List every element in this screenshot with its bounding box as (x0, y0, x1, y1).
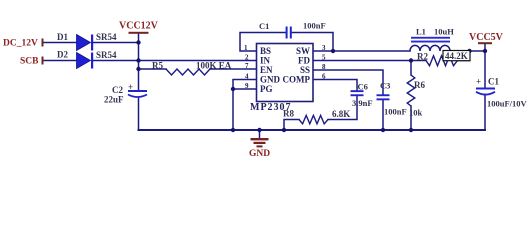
capacitor C2 input electrolytic (128, 90, 147, 92)
wire COMP line pin 6 to C6 (313, 80, 357, 91)
svg-text:VCC12V: VCC12V (119, 21, 159, 32)
svg-text:9: 9 (245, 82, 249, 90)
wire inductor to output node (450, 50, 485, 52)
wire BS bootstrap stub (240, 33, 286, 52)
op-amp U1 MP2307 IC box (257, 44, 314, 102)
wire R6 leads (410, 61, 412, 131)
svg-text:R2: R2 (417, 52, 428, 62)
wire C6 bottom to R8 (328, 96, 357, 120)
wire R5 to pin 7 EN (210, 68, 257, 70)
wire VCC12V vertical rail (138, 34, 140, 131)
wire D1 cathode to 12V rail (93, 42, 139, 44)
wire SW to inductor (313, 50, 410, 52)
wire DC_12V to D1 anode (43, 42, 78, 44)
svg-text:SR54: SR54 (96, 32, 117, 42)
inductor L1 core bars (411, 37, 450, 39)
svg-text:100nF: 100nF (303, 21, 326, 31)
svg-text:7: 7 (245, 62, 249, 70)
resistor R5 zigzag (166, 69, 210, 75)
inductor L1 coil (410, 45, 450, 51)
svg-text:R5: R5 (152, 61, 163, 71)
wire R8 to ground bus (284, 120, 299, 131)
wire SS line pin 8 to C3 (313, 70, 383, 94)
svg-text:3.9nF: 3.9nF (352, 98, 373, 108)
wire FB line pin 5 (313, 60, 426, 62)
svg-text:BS: BS (260, 46, 271, 56)
svg-text:8: 8 (322, 63, 326, 71)
svg-text:C3: C3 (380, 81, 390, 91)
value 44.2K boxed (443, 51, 470, 61)
svg-text:SS: SS (300, 65, 310, 75)
svg-text:C1: C1 (488, 77, 499, 87)
wire PG pin 9 (233, 88, 257, 90)
diode D2 (77, 53, 91, 69)
svg-text:6: 6 (322, 73, 326, 81)
svg-text:+: + (128, 82, 133, 92)
svg-text:C6: C6 (358, 82, 368, 92)
pin numbers (244, 44, 326, 90)
diode D1 (77, 35, 91, 51)
wire GND pin 4 (233, 80, 257, 131)
wire R2 right terminal up to output (458, 51, 470, 61)
svg-text:22uF: 22uF (104, 95, 124, 105)
wire bootstrap cap to SW node (292, 33, 333, 52)
svg-text:DC_12V: DC_12V (3, 39, 38, 49)
wire VCC5V stub and C1 branch (484, 44, 486, 130)
svg-text:100nF: 100nF (384, 107, 407, 117)
wire C3 bottom lead (382, 100, 384, 130)
wire D2 cathode to IC pin 2 IN (93, 60, 257, 62)
svg-text:R6: R6 (414, 80, 425, 90)
svg-text:GND: GND (249, 149, 270, 159)
svg-text:D2: D2 (57, 50, 68, 60)
resistor R6 zigzag (407, 75, 415, 106)
svg-text:3: 3 (322, 44, 326, 52)
resistor R2 zigzag (426, 56, 458, 66)
svg-text:D1: D1 (57, 32, 68, 42)
svg-text:44.2K: 44.2K (445, 51, 468, 61)
svg-text:1: 1 (244, 44, 248, 52)
svg-text:FD: FD (298, 56, 310, 66)
wire bottom ground bus (139, 129, 486, 131)
capacitor C1 output electrolytic (476, 88, 495, 90)
svg-text:PG: PG (260, 84, 273, 94)
capacitor C3 plates (377, 94, 390, 96)
svg-text:SCB: SCB (20, 57, 39, 67)
svg-text:4: 4 (245, 73, 249, 81)
svg-text:C2: C2 (112, 85, 123, 95)
svg-text:COMP: COMP (283, 75, 311, 85)
svg-text:GND: GND (260, 75, 281, 85)
svg-text:EN: EN (260, 65, 273, 75)
wire SCB to D2 anode (43, 60, 78, 62)
svg-text:2: 2 (245, 54, 249, 62)
svg-text:6.8K: 6.8K (332, 109, 350, 119)
svg-text:R8: R8 (283, 109, 294, 119)
svg-text:L1: L1 (416, 27, 426, 37)
svg-text:SR54: SR54 (96, 50, 117, 60)
svg-text:C1: C1 (259, 21, 269, 31)
svg-text:10k: 10k (409, 108, 423, 118)
svg-text:5: 5 (322, 54, 326, 62)
resistor R8 zigzag (299, 115, 328, 123)
capacitor C6 plates (351, 90, 364, 92)
svg-text:100K EA: 100K EA (196, 61, 232, 71)
svg-text:100uF/10V: 100uF/10V (487, 99, 528, 109)
svg-text:10uH: 10uH (434, 27, 454, 37)
ground (251, 138, 269, 147)
wire R5 branch from rail to EN (139, 68, 167, 70)
wire GND symbol stub (259, 130, 261, 138)
capacitor C1 bootstrap plates (286, 27, 288, 39)
svg-text:+: + (476, 77, 481, 87)
svg-text:SW: SW (296, 46, 310, 56)
svg-text:IN: IN (260, 56, 271, 66)
svg-text:VCC5V: VCC5V (469, 32, 504, 43)
